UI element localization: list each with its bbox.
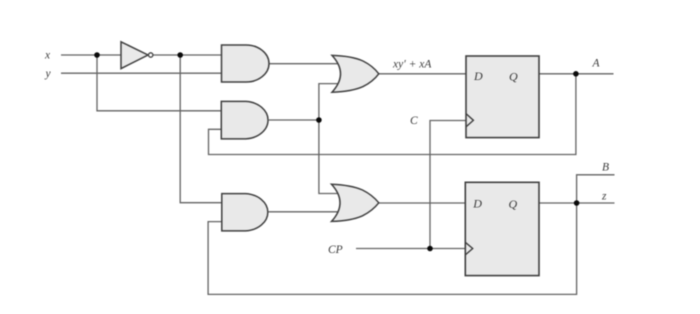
wire AND3 output to OR2 <box>269 211 340 213</box>
svg-text:xy′ + xA: xy′ + xA <box>392 59 432 71</box>
svg-text:A: A <box>592 58 601 70</box>
svg-text:D: D <box>472 197 482 211</box>
junction node on x-prime <box>177 52 183 58</box>
wire AND2 output to node <box>269 119 319 121</box>
svg-text:x: x <box>44 50 51 62</box>
junction node xA <box>316 117 322 123</box>
svg-text:B: B <box>602 162 609 174</box>
AND gate G3 (bottom) <box>222 194 268 231</box>
junction node A <box>573 71 579 77</box>
wire y input <box>61 72 222 74</box>
wire node z up to output B <box>577 175 615 203</box>
wire z feedback to AND3 lower input <box>208 203 576 294</box>
wire inverter output to AND1 <box>154 54 224 56</box>
wire OR2 output to D of U2 <box>379 202 466 204</box>
wire x-prime branch to AND3 top input <box>180 55 223 203</box>
wire x branch to AND2 top input <box>97 55 223 111</box>
junction node z <box>574 200 580 206</box>
svg-text:CP: CP <box>328 244 343 256</box>
svg-text:C: C <box>410 115 418 127</box>
wire Q of U1 to output A <box>539 73 614 75</box>
wire CP to clock of U2 <box>356 248 466 250</box>
junction node CP <box>427 246 433 252</box>
svg-text:Q: Q <box>509 70 518 84</box>
wire OR1 output to D of U1 <box>379 73 466 75</box>
D flip-flop U1 (A) <box>466 56 539 138</box>
svg-text:Q: Q <box>509 197 518 211</box>
D flip-flop U2 (B) <box>465 182 539 275</box>
wire C to clock of U1 <box>430 121 466 249</box>
junction node on x <box>94 52 100 58</box>
svg-text:y: y <box>45 68 52 80</box>
wire node to OR1 lower input and OR2 upper input <box>319 84 340 194</box>
svg-text:z: z <box>601 191 607 203</box>
wire AND1 output to OR1 <box>268 63 340 65</box>
wire x input <box>61 54 121 56</box>
wire A feedback to AND2 lower input <box>209 74 576 155</box>
AND gate G1 (top) <box>222 45 270 82</box>
inverter (NOT gate) on x <box>121 42 153 69</box>
OR gate G4 (top) <box>332 55 379 92</box>
wire Q of U2 to output z <box>539 202 615 204</box>
OR gate G5 (bottom) <box>332 184 379 221</box>
svg-text:D: D <box>473 69 483 83</box>
AND gate G2 (middle) <box>221 101 268 138</box>
